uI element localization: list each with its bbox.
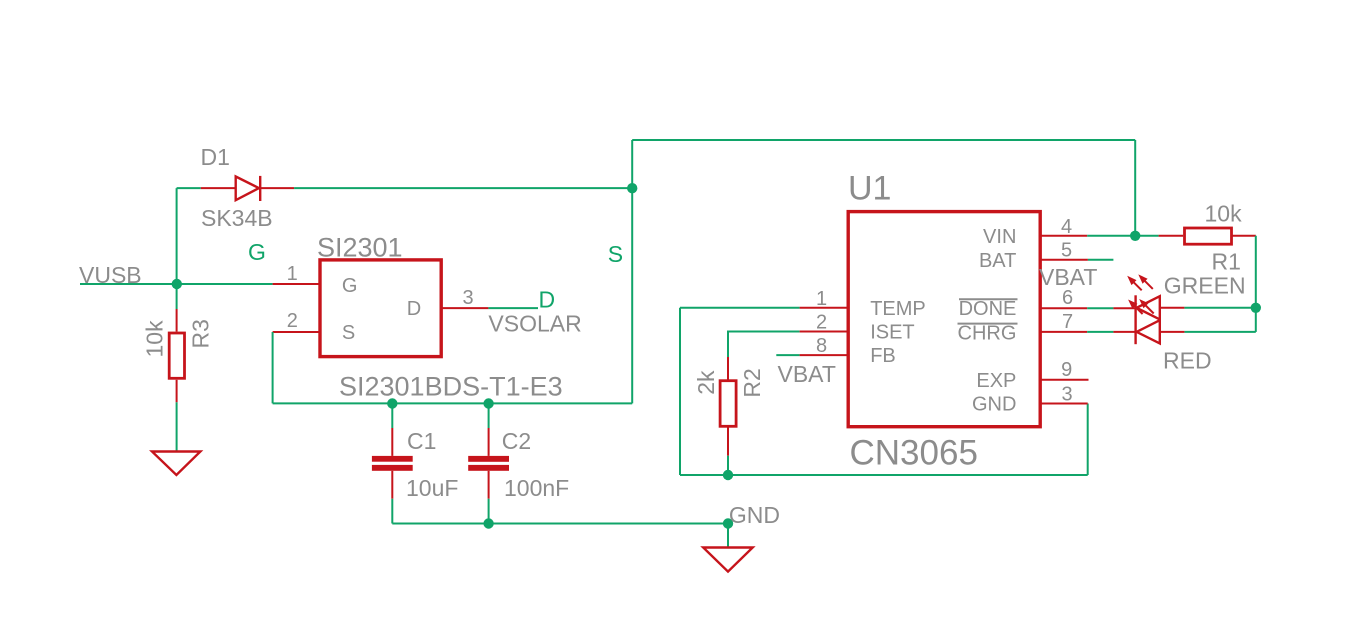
svg-text:G: G (248, 239, 266, 265)
LED D2 anode lead (1160, 307, 1185, 309)
svg-text:G: G (342, 275, 358, 297)
svg-text:SI2301BDS-T1-E3: SI2301BDS-T1-E3 (339, 372, 563, 402)
node C1 top junction (387, 398, 397, 408)
svg-text:ISET: ISET (870, 322, 914, 344)
svg-text:D: D (407, 298, 421, 320)
pin 9 EXP wire (1039, 379, 1089, 381)
capacitor C1 top wire (391, 403, 393, 428)
capacitor C1 top lead (391, 428, 393, 456)
capacitor C2 top lead (488, 428, 490, 456)
diode D1 anode lead (201, 187, 236, 189)
svg-text:10k: 10k (1205, 201, 1243, 227)
pin 7 CHRG wire (1039, 331, 1087, 333)
node VUSB junction (172, 279, 182, 289)
node LED junction (1251, 303, 1261, 313)
node R2 bottom junction (723, 470, 733, 480)
wire right vertical to VIN (1134, 140, 1136, 236)
resistor R3 bottom lead (176, 380, 178, 403)
svg-text:9: 9 (1061, 359, 1072, 381)
svg-text:FB: FB (870, 345, 896, 367)
LED D2 green cathode lead (1113, 307, 1135, 309)
pin DONE overline (959, 298, 1018, 300)
transistor SI2301 body (320, 260, 441, 357)
svg-text:VSOLAR: VSOLAR (488, 311, 581, 337)
pin 6 DONE wire (1039, 307, 1087, 309)
capacitor C1 bottom wire (391, 499, 393, 524)
svg-text:S: S (342, 322, 355, 344)
pin 3 GND wire (1039, 403, 1088, 405)
svg-text:C2: C2 (502, 428, 531, 454)
wire bottom rail to pin3 (680, 474, 1088, 476)
LED D2 triangle (1137, 296, 1160, 319)
wire diode to S node (294, 187, 632, 189)
resistor R2 bottom lead (727, 426, 729, 455)
svg-text:2k: 2k (693, 370, 719, 395)
wire TEMP net vertical (679, 308, 681, 475)
svg-text:S: S (608, 241, 623, 267)
wire junction down (1255, 308, 1257, 332)
pin 5 BAT wire (1039, 259, 1088, 261)
svg-text:8: 8 (816, 335, 827, 357)
LED cathode bar (1134, 295, 1136, 344)
svg-text:1: 1 (287, 263, 298, 285)
resistor R1 right lead (1232, 235, 1256, 237)
svg-text:TEMP: TEMP (870, 298, 926, 320)
LED D2 emission arrow 1 (1127, 276, 1142, 291)
svg-text:RED: RED (1163, 348, 1212, 374)
node S junction (627, 183, 637, 193)
wire S node vertical (631, 140, 633, 403)
pin 1 TEMP wire (800, 307, 849, 309)
resistor R1 body (1185, 228, 1232, 244)
svg-text:VIN: VIN (983, 226, 1016, 248)
node VIN junction (1130, 231, 1140, 241)
svg-text:GND: GND (972, 394, 1016, 416)
IC U1 body (848, 212, 1040, 427)
LED D3 emission arrow 1 (1128, 300, 1143, 315)
wire VIN to R1 (1087, 235, 1158, 237)
wire GND rail (392, 523, 728, 525)
ground symbol bottom (703, 548, 753, 572)
wire junction to green LED (1184, 307, 1255, 309)
svg-text:6: 6 (1062, 287, 1073, 309)
wire VUSB horizontal (80, 283, 273, 285)
node C2 top junction (483, 398, 493, 408)
wire vertical to diode corner (176, 188, 178, 284)
wire FB stub (776, 354, 799, 356)
diode D1 cathode bar (259, 176, 261, 201)
node GND junction (723, 518, 733, 528)
svg-text:SI2301: SI2301 (317, 233, 403, 263)
wire pin3 vertical (1087, 404, 1089, 476)
resistor R3 body (169, 333, 184, 378)
capacitor C2 bottom lead (488, 471, 490, 499)
svg-text:U1: U1 (848, 170, 891, 208)
wire ISET corner (728, 332, 800, 358)
svg-text:2: 2 (816, 312, 827, 334)
svg-text:D1: D1 (201, 144, 230, 170)
resistor R3 top lead (176, 309, 178, 332)
pin 2 wire (273, 331, 320, 333)
wire TEMP net horizontal (680, 307, 800, 309)
wire R1 down (1255, 236, 1257, 308)
wire BAT stub (1088, 259, 1114, 261)
LED D3 triangle (1137, 320, 1160, 343)
capacitor C1 bottom lead (391, 471, 393, 499)
svg-text:R2: R2 (739, 368, 765, 397)
pin 8 FB wire (800, 354, 849, 356)
svg-text:3: 3 (1061, 383, 1072, 405)
svg-text:4: 4 (1061, 216, 1072, 238)
svg-text:3: 3 (462, 287, 473, 309)
svg-text:7: 7 (1062, 311, 1073, 333)
resistor R2 top lead (727, 357, 729, 381)
capacitor C2 top wire (488, 403, 490, 428)
svg-text:DONE: DONE (959, 298, 1017, 320)
svg-text:CHRG: CHRG (958, 322, 1017, 344)
svg-text:5: 5 (1061, 239, 1072, 261)
svg-text:SK34B: SK34B (201, 205, 273, 231)
resistor R2 body (720, 381, 736, 427)
diode D1 cathode lead (260, 187, 294, 189)
svg-text:D: D (539, 287, 556, 313)
svg-text:BAT: BAT (979, 250, 1016, 272)
svg-text:100nF: 100nF (504, 475, 569, 501)
svg-text:GND: GND (729, 502, 780, 528)
wire R2 to rail (727, 456, 729, 475)
svg-text:10k: 10k (142, 320, 168, 358)
resistor R1 left lead (1159, 235, 1184, 237)
svg-text:GREEN: GREEN (1164, 273, 1246, 299)
LED D3 emission arrow 2 (1139, 299, 1154, 314)
capacitor C2 bottom wire (488, 499, 490, 524)
wire junction down to R3 (176, 284, 178, 309)
wire S rail (273, 402, 633, 404)
node C2 bottom junction (483, 518, 493, 528)
pin 2 ISET wire (800, 331, 849, 333)
svg-text:VBAT: VBAT (778, 361, 836, 387)
wire CHRG to LED (1087, 331, 1113, 333)
svg-text:R3: R3 (188, 319, 214, 348)
pin 4 VIN wire (1039, 235, 1087, 237)
wire D stub (488, 307, 538, 309)
pin 1 wire (273, 283, 320, 285)
ground symbol left (152, 452, 200, 476)
LED D2 emission arrow 2 (1138, 274, 1153, 289)
svg-text:CN3065: CN3065 (850, 434, 978, 473)
diode D1 triangle (236, 177, 259, 201)
LED D3 anode lead (1160, 331, 1185, 333)
svg-text:EXP: EXP (976, 370, 1016, 392)
pin CHRG overline (958, 323, 1018, 325)
svg-text:1: 1 (816, 288, 827, 310)
svg-text:C1: C1 (407, 428, 436, 454)
wire S pin down (272, 332, 274, 403)
pin 3 wire (441, 307, 488, 309)
wire R3 to ground (176, 402, 178, 451)
LED D3 red cathode lead (1113, 331, 1135, 333)
svg-text:10uF: 10uF (406, 475, 458, 501)
capacitor C2 plates (468, 456, 509, 471)
svg-text:2: 2 (287, 310, 298, 332)
wire corner to diode (177, 187, 201, 189)
capacitor C1 plates (372, 456, 413, 471)
wire GND to ground symbol (727, 524, 729, 548)
wire top rail (632, 139, 1135, 141)
wire DONE to LED (1087, 307, 1113, 309)
svg-text:R1: R1 (1212, 249, 1241, 275)
wire to red LED (1184, 331, 1255, 333)
